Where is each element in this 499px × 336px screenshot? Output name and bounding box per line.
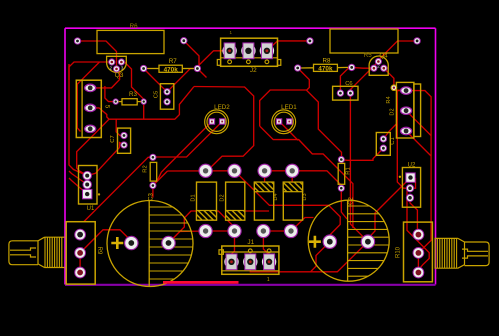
potentiometer R10 pad 2 — [413, 248, 424, 259]
connector J1 pad 1 — [224, 254, 238, 270]
svg-text:J1: J1 — [247, 239, 254, 246]
regulator Q2 outline — [396, 82, 414, 138]
connector J1 inner bottom line — [222, 270, 279, 272]
wire Q3 pin3 to R3 right pad — [121, 62, 143, 102]
potentiometer R10 pad 3 — [413, 267, 424, 278]
via hole A — [74, 38, 80, 44]
connector U1 pad 3 — [83, 189, 92, 198]
connector J5 pad 3 — [85, 125, 96, 132]
resistor R7 lead right — [182, 68, 194, 70]
potentiometer R10 body — [404, 222, 433, 282]
capacitor C3 stripe divider — [148, 201, 150, 287]
wire C6 right pad down to C2 minus pad — [350, 93, 368, 242]
resistor R2 body — [150, 162, 157, 181]
J2 pin circle 1 — [228, 60, 232, 64]
svg-text:U1: U1 — [87, 206, 95, 212]
wire loop under LED1 — [260, 126, 353, 228]
via hole D — [414, 38, 420, 44]
connector J2 right tab — [278, 60, 281, 66]
J1 pad3 drill dot — [268, 260, 271, 263]
wire G branch to C7 top pad — [116, 119, 124, 135]
wire C3 minus pad to bottom pads bus — [169, 231, 235, 243]
capacitor C5 pad bottom — [164, 99, 170, 105]
wire diode top pads bus right — [265, 171, 342, 188]
power rail bar — [163, 281, 239, 284]
J1 pad2 drill dot — [249, 260, 252, 263]
wire bottom pads bus right — [263, 218, 313, 232]
capacitor C2 body circle — [308, 200, 389, 281]
J2 pad3 drill dot — [266, 49, 269, 52]
potentiometer R10 pad 1 — [413, 229, 424, 240]
diode D1 cathode band — [197, 211, 217, 221]
capacitor C2 pad negative — [361, 235, 374, 248]
board outline right edge — [435, 28, 437, 284]
resistor R4 pad — [391, 85, 397, 91]
potentiometer R9 neck — [38, 237, 45, 267]
svg-text:1: 1 — [267, 277, 270, 283]
resistor R8 pad right — [349, 64, 355, 70]
svg-text:C6: C6 — [345, 81, 352, 87]
transistor Q4 outline — [369, 56, 388, 75]
potentiometer R9 pad 1 — [75, 229, 86, 240]
svg-text:R5: R5 — [364, 52, 372, 59]
J2 pin circle 3 — [265, 60, 269, 64]
potentiometer R9 body — [66, 222, 95, 284]
connector J5 pad 1 — [85, 84, 96, 91]
LED2 pad anode — [209, 119, 214, 124]
svg-text:D2: D2 — [220, 194, 226, 201]
wire U2 pin2 to R10 pin3 — [407, 188, 429, 272]
wire R8 left pad to LED1 loop — [298, 68, 310, 90]
diode D3 cathode band — [283, 182, 302, 192]
svg-text:R2: R2 — [143, 165, 149, 172]
wire C5 top pad to R7 right pad — [167, 69, 197, 92]
diode D4 cathode band — [254, 182, 273, 192]
wire via1 to Q3 base — [78, 41, 117, 69]
U1 dot — [98, 193, 100, 195]
wire C2 plus to J1 bus — [311, 242, 330, 272]
connector J5 pad 2 — [85, 104, 96, 111]
wire Q2 pad3 diag to right edge — [406, 131, 431, 156]
svg-text:C3: C3 — [149, 193, 155, 201]
capacitor C7 pad top — [121, 132, 127, 138]
resistor R7 lead left — [147, 68, 159, 70]
diode D2 body — [226, 182, 245, 220]
connector J1 pin1 square mark — [219, 250, 223, 255]
wire loop around LED2 — [194, 87, 254, 172]
capacitor C2 pad positive — [323, 235, 336, 248]
wire R7 right pad diag — [197, 69, 206, 78]
regulator Q2 tab — [414, 84, 421, 137]
wire C1 bottom to R1 top — [342, 148, 384, 160]
connector U2 pad 3 — [406, 194, 413, 201]
transistor Q4 pad right — [381, 65, 387, 71]
svg-text:C2: C2 — [348, 197, 354, 205]
potentiometer R9 thread — [45, 237, 65, 267]
svg-text:Q3: Q3 — [115, 72, 124, 79]
wire G branch to left edge down to U1 — [77, 119, 109, 175]
regulator Q2 pad 1 — [401, 87, 412, 94]
capacitor C3 body circle — [107, 201, 193, 287]
board outline bottom edge — [65, 284, 436, 286]
capacitor C3 pad positive — [125, 236, 138, 249]
regulator Q2 pad 3 — [401, 127, 412, 134]
J1 pin circle 3 — [267, 249, 271, 253]
resistor R2 pad bottom — [150, 182, 156, 188]
resistor R3 lead right — [137, 101, 141, 103]
wire Q3 pin1 branch to J5 pin3 — [77, 62, 99, 132]
potentiometer R9 pad 3 — [75, 267, 86, 278]
potentiometer R10 thread — [435, 238, 458, 268]
resistor R1 pad top — [338, 156, 344, 162]
wire loop around LED1 upper — [260, 90, 342, 160]
connector J2 outline — [221, 38, 278, 66]
LED1 pad anode — [276, 119, 281, 124]
LED1 outer circle — [272, 110, 296, 134]
svg-text:Q4: Q4 — [379, 53, 388, 60]
capacitor C3 plus sign — [111, 237, 123, 249]
transistor Q3 outline — [107, 56, 127, 72]
diode bottom pad 1 — [199, 224, 212, 237]
wire R2 bottom stub — [152, 186, 154, 198]
connector U1 pad 1 — [83, 171, 92, 180]
capacitor C2 stripe divider — [347, 200, 349, 281]
wire C6 left pad to R8 — [340, 67, 351, 93]
capacitor C3 minus hatch — [149, 207, 193, 279]
transistor Q4 pad base — [375, 58, 381, 64]
J1 pin circle 2 — [248, 249, 252, 253]
wire U2 pin1 to C2 minus pad — [368, 178, 411, 242]
wire via2 to R7 right pad — [184, 41, 199, 69]
connector U2 pad 2 — [406, 185, 413, 192]
board outline left edge — [64, 28, 66, 284]
resistor R1 pad bottom — [338, 185, 344, 191]
wire R7 left pad to C5 top pad — [144, 69, 168, 92]
wire right edge vertical to R10 pin1 — [406, 91, 431, 253]
wire left edge to U1 pin2 — [69, 171, 87, 185]
potentiometer R9 slot — [10, 248, 36, 257]
connector J1 pad 3 — [262, 254, 276, 270]
diode bottom pad 2 — [228, 224, 241, 237]
capacitor C3 pad negative — [162, 236, 175, 249]
svg-text:C5: C5 — [154, 91, 160, 98]
transistor Q4 pad left — [371, 65, 377, 71]
capacitor C6 pad left — [337, 90, 343, 96]
J2 pad1 drill dot — [228, 49, 231, 52]
wire Q3 pin1 to left edge — [69, 62, 112, 80]
connector J2 inner line — [221, 57, 278, 59]
potentiometer R10 neck — [458, 238, 465, 268]
diode D4 body — [254, 182, 273, 220]
svg-text:470k: 470k — [164, 66, 179, 73]
connector J1 pad 2 — [243, 254, 257, 270]
svg-text:2: 2 — [110, 65, 113, 70]
resistor R3 pad left — [113, 99, 118, 104]
wire left edge to U1 pin3 — [69, 178, 87, 194]
resistor R3 body — [122, 99, 137, 105]
wire U1 pin3 to R2 top pad — [84, 157, 153, 221]
wire LED2 cathode to R2 bottom pad — [153, 122, 212, 186]
connector J5 inner line — [81, 80, 83, 137]
wire Q3 pin2 to J5 pin1 — [90, 69, 119, 88]
capacitor C1 pad top — [380, 136, 386, 142]
wire R10 wiper to R10 pin3 — [417, 253, 419, 273]
connector U1 pad 2 — [83, 180, 92, 189]
wire top pad2 diag to C2 plus pad — [235, 171, 341, 242]
capacitor C6 pad right — [347, 90, 353, 96]
wire J5 pin2 to LED2 loop corner — [90, 87, 194, 120]
connector U2 outline — [402, 168, 420, 208]
wire J1 pin2 to C2 minus — [250, 242, 368, 272]
capacitor C1 outline — [376, 133, 390, 156]
capacitor C1 pad bottom — [380, 145, 386, 151]
wire via4 through Q4 base to C6 right pad — [350, 41, 417, 93]
transistor Q3 pad 1 — [109, 59, 115, 65]
wire J1 pin3 up to bottom pad3 — [263, 231, 269, 262]
capacitor C5 pad top — [164, 89, 170, 95]
LED1 inner circle — [274, 112, 293, 131]
wire R9 wiper to R9 pin3 — [79, 253, 81, 273]
diode D1 body — [197, 182, 217, 220]
wire R8 right pad to Q4 — [352, 66, 374, 69]
resistor R8 lead left — [301, 67, 314, 69]
wire across D4 — [245, 210, 269, 212]
svg-text:R3: R3 — [129, 91, 137, 98]
wire R1 bottom stub — [341, 188, 347, 219]
diode top pad 1 — [199, 164, 212, 177]
wire Q2 pad2 diag — [406, 111, 431, 136]
resistor R8 pad left — [295, 65, 301, 71]
J1 pad1 drill dot — [230, 260, 233, 263]
diode D3 body — [283, 182, 302, 220]
diode top pad 3 — [258, 164, 271, 177]
wire J2 pin3 to via2 — [267, 41, 310, 51]
wire R4 pad to Q2 pad1 — [394, 88, 406, 91]
via hole C — [307, 38, 313, 44]
wire J1 pin1 up to bottom pad2 — [232, 231, 235, 262]
wire Q4 right pad to R4 pad — [384, 68, 394, 88]
svg-text:2: 2 — [377, 64, 380, 69]
diode bottom pad 3 — [257, 224, 270, 237]
regulator Q2 pad 2 — [401, 107, 412, 114]
diode bottom pad 4 — [284, 224, 297, 237]
wire top pad4 into D3 — [291, 171, 293, 186]
svg-text:J2: J2 — [250, 67, 257, 74]
wire across D1 D2 hatch — [169, 211, 235, 243]
svg-text:470k: 470k — [318, 66, 333, 73]
wire R3 right pad down to bus — [143, 102, 145, 120]
resistor R7 body — [159, 65, 182, 72]
svg-text:R9: R9 — [96, 247, 102, 255]
resistor R5 outline — [330, 29, 398, 53]
svg-text:LED1: LED1 — [281, 104, 297, 111]
connector J2 left tab — [217, 60, 220, 66]
svg-text:R10: R10 — [395, 246, 401, 258]
svg-text:R7: R7 — [169, 58, 177, 65]
connector J2 pad 3 — [260, 43, 274, 59]
wire C7 bottom pad to U1 pin1 — [87, 143, 124, 176]
svg-text:LED2: LED2 — [214, 104, 230, 111]
wire U2 pin1 loop — [410, 178, 416, 189]
wire R9 wiper to C3 plus pad — [80, 230, 131, 253]
wire top pad3 into D4 — [264, 171, 266, 186]
svg-text:3: 3 — [121, 65, 124, 70]
svg-text:C7: C7 — [110, 135, 116, 142]
resistor R3 lead left — [118, 101, 122, 103]
resistor R3 pad right — [141, 99, 146, 104]
wire left edge down to U1 pin1 — [69, 64, 87, 176]
transistor Q3 pad 2 — [113, 66, 119, 72]
resistor R8 body — [314, 64, 338, 71]
svg-text:D3: D3 — [302, 193, 308, 200]
svg-text:D1: D1 — [191, 194, 197, 201]
wire LED1 anode diag — [279, 121, 298, 140]
wire Q2 pad1 branch to C1 top — [383, 123, 397, 139]
potentiometer R10 slot — [462, 249, 488, 258]
potentiometer R9 pad 2 — [75, 248, 86, 259]
diode top pad 2 — [228, 164, 241, 177]
resistor R7 pad right — [194, 65, 200, 71]
diode D2 cathode band — [226, 211, 245, 221]
LED2 inner circle — [207, 112, 226, 131]
wire R2 bottom to bus — [153, 171, 168, 186]
diode top pad 4 — [286, 164, 299, 177]
LED2 outer circle — [205, 110, 229, 134]
resistor R8 lead right — [337, 66, 348, 68]
J2 pin circle 2 — [247, 60, 251, 64]
via hole B — [181, 38, 187, 44]
resistor R6 outline — [97, 30, 164, 53]
svg-text:R8: R8 — [323, 57, 331, 64]
wire U2 pin3 to R10 pin1 — [410, 198, 417, 235]
LED2 pad cathode — [220, 119, 225, 124]
connector U2 pad 1 — [406, 173, 415, 182]
connector J1 outline — [222, 246, 279, 274]
wire Q2 pad1 to U2 pin2 — [397, 91, 410, 189]
svg-text:U2: U2 — [408, 163, 416, 169]
svg-text:R1: R1 — [346, 167, 352, 174]
connector J2 pad 2 — [241, 43, 255, 59]
capacitor C5 outline — [160, 84, 173, 110]
resistor R1 body — [338, 163, 345, 184]
capacitor C7 outline — [118, 128, 131, 153]
capacitor C6 outline — [333, 86, 358, 100]
potentiometer R9 knob — [9, 241, 38, 265]
capacitor C7 pad bottom — [121, 142, 127, 148]
potentiometer R10 knob — [465, 242, 490, 266]
svg-text:R6: R6 — [130, 23, 138, 30]
wire R3 left pad stub — [105, 86, 116, 102]
svg-text:D2: D2 — [389, 108, 395, 115]
connector U1 outline — [79, 166, 98, 205]
wire diode top pads bus left — [168, 170, 235, 172]
connector J1 inner top line — [222, 251, 279, 253]
resistor R2 pad top — [150, 154, 156, 160]
transistor Q3 pad 3 — [118, 59, 124, 65]
wire J2 pin1 to R7 right pad — [197, 51, 229, 69]
connector J2 pad 1 — [222, 43, 236, 59]
svg-text:D4: D4 — [273, 193, 279, 200]
connector J5 outline — [76, 80, 101, 137]
board outline top edge — [65, 27, 436, 29]
wire R2 top pad to LED2 cathode — [153, 122, 222, 158]
U2 dot — [399, 176, 401, 178]
LED1 pad cathode — [287, 119, 292, 124]
resistor R7 pad left — [140, 65, 146, 71]
capacitor C2 minus hatch — [348, 206, 389, 276]
capacitor C2 plus sign — [309, 236, 321, 248]
svg-text:R4: R4 — [386, 96, 392, 103]
svg-text:C1: C1 — [390, 137, 396, 144]
